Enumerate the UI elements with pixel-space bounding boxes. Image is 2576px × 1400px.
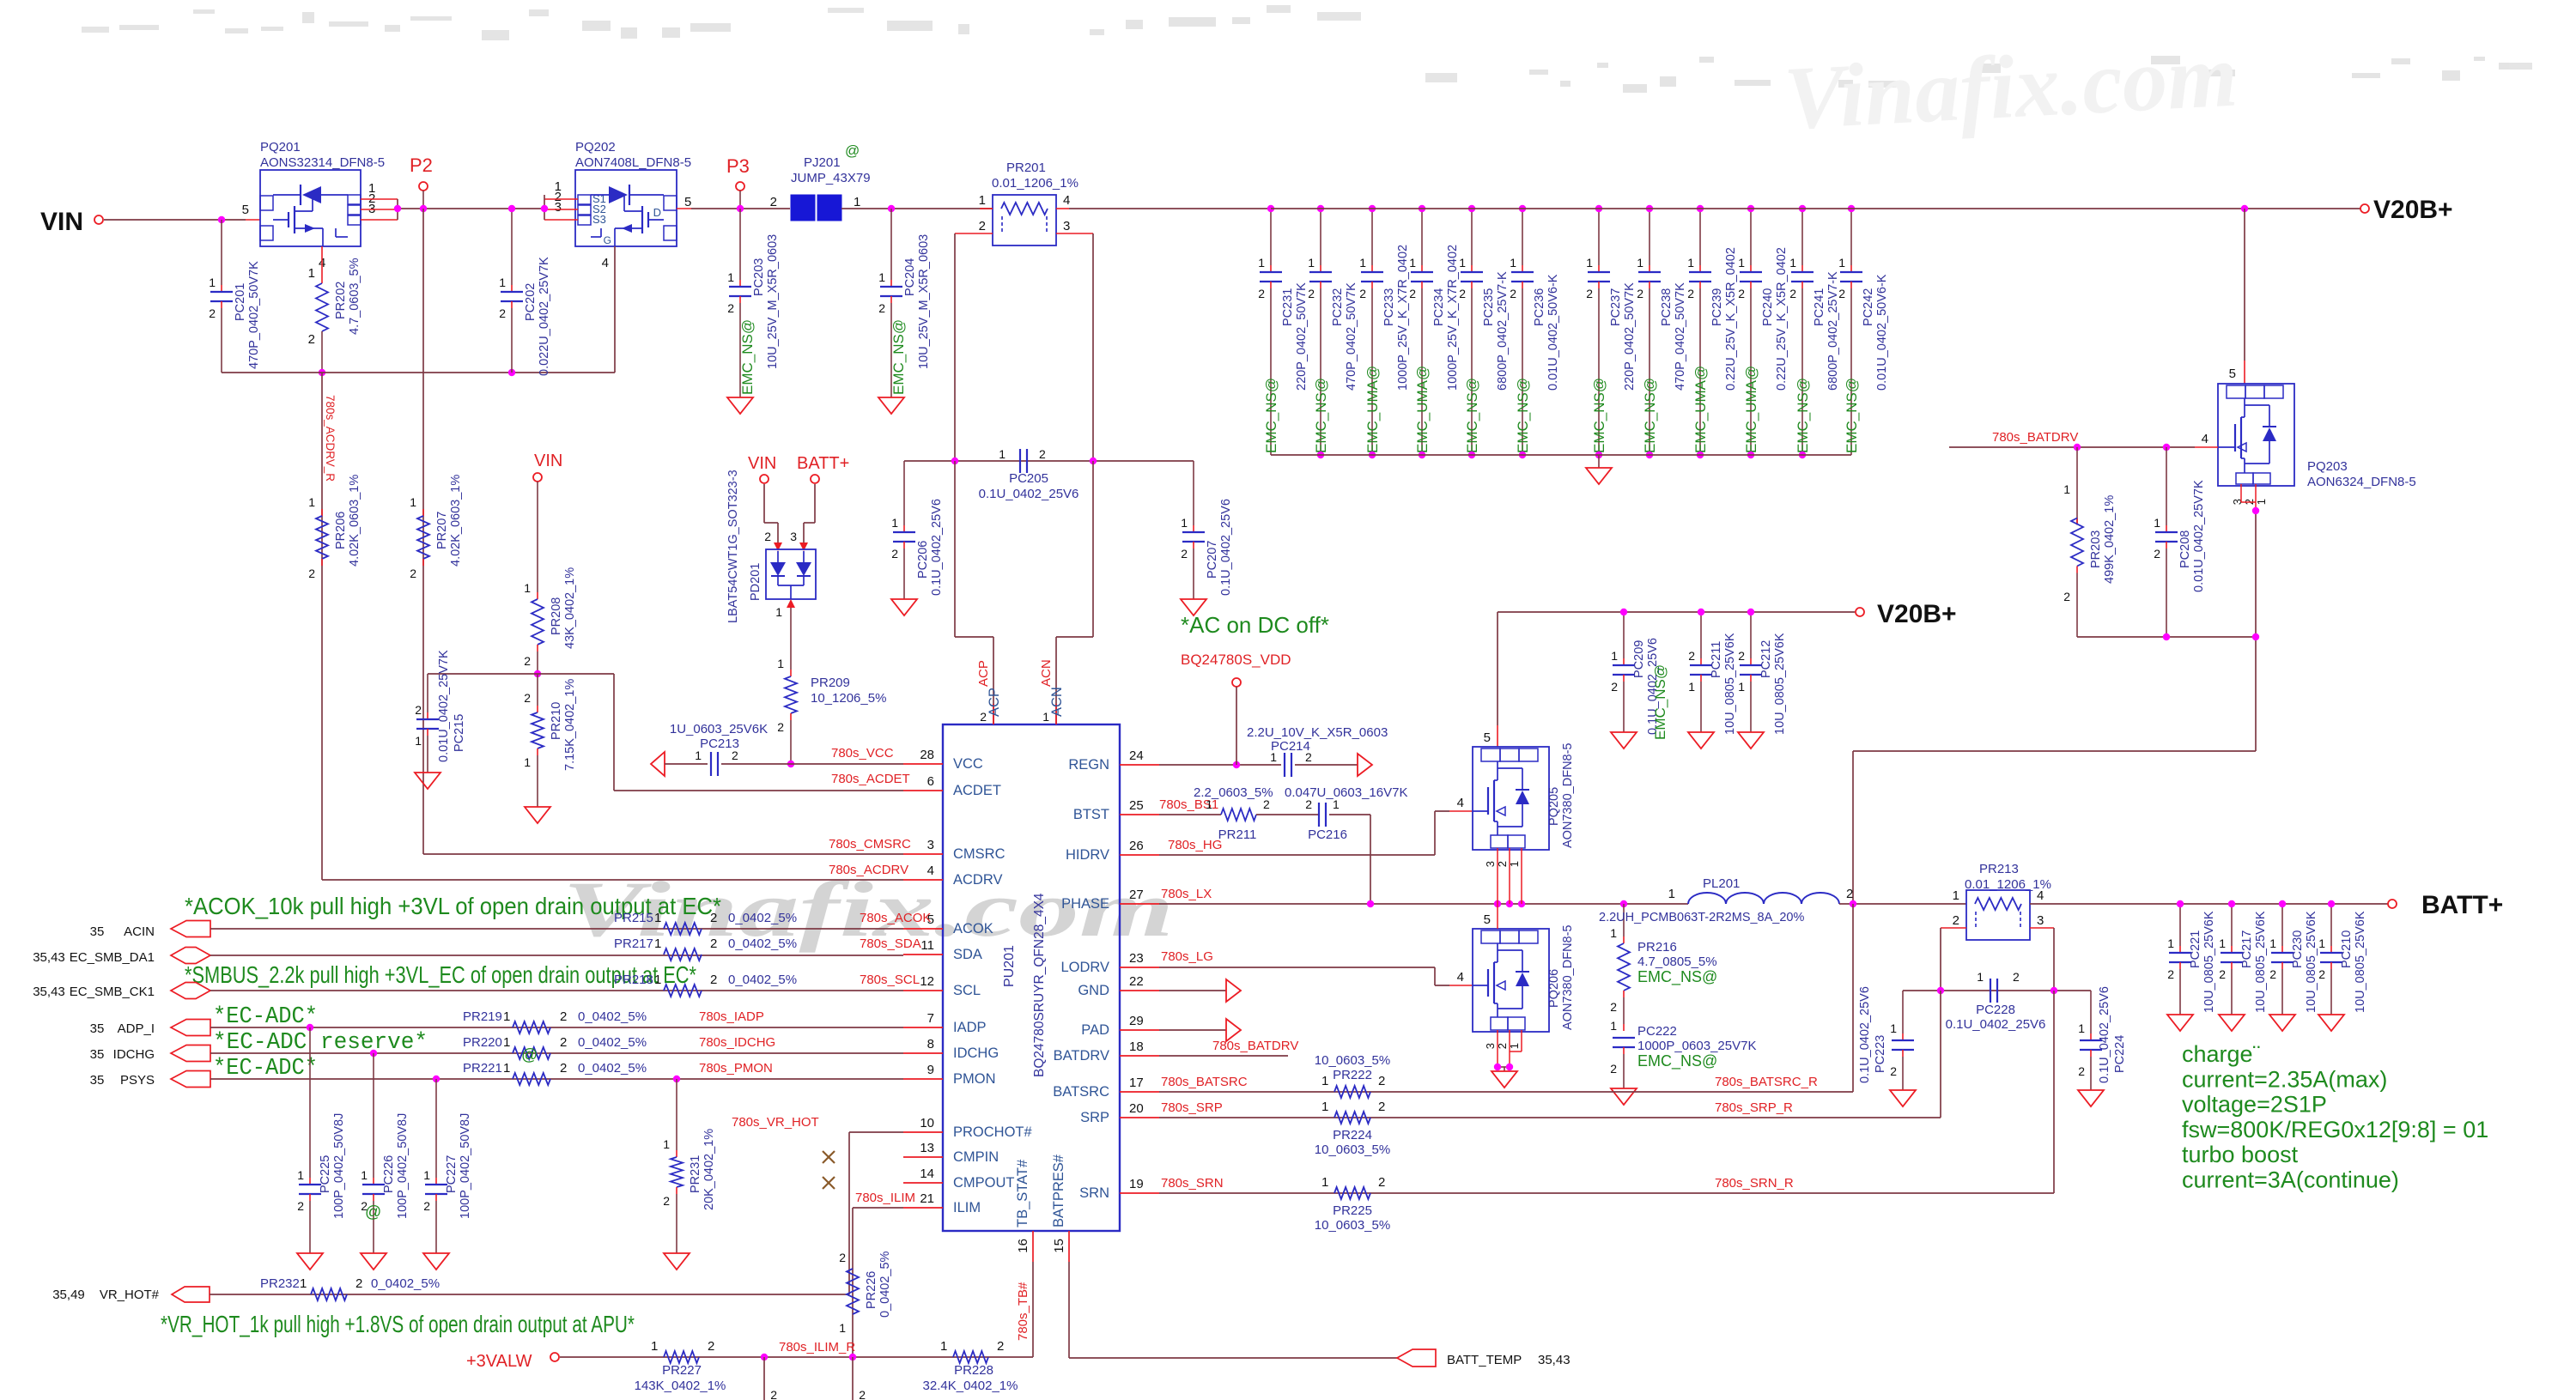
pin 12 SCL xyxy=(903,974,981,998)
flag PAD xyxy=(1159,1019,1241,1041)
svg-text:6800P_0402_25V7-K: 6800P_0402_25V7-K xyxy=(1496,271,1510,391)
wire PR213 pin2 xyxy=(1941,928,1966,991)
wire IADP xyxy=(210,1027,903,1028)
resistor PR227 xyxy=(635,1339,726,1393)
wire ACN drop xyxy=(1039,461,1093,724)
svg-text:4.7_0603_5%: 4.7_0603_5% xyxy=(348,258,361,335)
svg-text:2: 2 xyxy=(560,1009,567,1024)
svg-text:PR206: PR206 xyxy=(334,512,348,549)
capacitor PC202 xyxy=(499,209,551,376)
svg-text:2: 2 xyxy=(1305,750,1312,764)
capacitor PC228 xyxy=(1946,970,2046,1032)
svg-text:PC225: PC225 xyxy=(319,1155,332,1193)
resistor PR210 xyxy=(524,674,577,823)
svg-text:780s_SCL: 780s_SCL xyxy=(860,973,920,987)
svg-text:BATT+: BATT+ xyxy=(797,454,849,473)
svg-text:2: 2 xyxy=(1586,287,1593,300)
svg-text:PC217: PC217 xyxy=(2240,930,2254,968)
svg-text:IDCHG: IDCHG xyxy=(953,1045,999,1061)
wire CMSRC horiz xyxy=(423,853,903,855)
junction xyxy=(2163,633,2170,640)
junction xyxy=(319,369,325,376)
svg-text:EMC_NS@: EMC_NS@ xyxy=(1795,378,1811,453)
svg-text:3: 3 xyxy=(1484,861,1497,867)
resistor PR231 xyxy=(663,1079,716,1270)
svg-text:AON6324_DFN8-5: AON6324_DFN8-5 xyxy=(2307,475,2416,489)
svg-text:EMC_NS@: EMC_NS@ xyxy=(1313,378,1329,453)
svg-text:10_1206_5%: 10_1206_5% xyxy=(811,691,886,706)
svg-text:780s_BATSRC_R: 780s_BATSRC_R xyxy=(1715,1075,1818,1089)
svg-text:2: 2 xyxy=(1890,1064,1897,1078)
junction xyxy=(1799,205,1806,212)
wire PC228 net xyxy=(1903,990,2091,991)
junction xyxy=(1267,205,1274,212)
svg-text:1000P_0603_25V7K: 1000P_0603_25V7K xyxy=(1637,1039,1756,1053)
svg-text:CMSRC: CMSRC xyxy=(953,846,1005,862)
terminal BATT+ xyxy=(2388,891,2503,919)
capacitor PC203 xyxy=(727,209,780,414)
svg-text:PC239: PC239 xyxy=(1710,288,1724,326)
svg-text:2: 2 xyxy=(1838,287,1845,300)
terminal V20B+ mid xyxy=(1856,600,1957,628)
junction xyxy=(1799,452,1806,458)
svg-text:PQ202: PQ202 xyxy=(575,140,616,155)
svg-text:2: 2 xyxy=(297,1199,304,1213)
wire SCL xyxy=(210,990,903,991)
wire IDCHG xyxy=(210,1052,903,1054)
svg-text:PC238: PC238 xyxy=(1660,288,1674,326)
svg-text:1: 1 xyxy=(2318,936,2325,950)
capacitor PC204 xyxy=(878,209,931,414)
svg-text:BTST: BTST xyxy=(1073,807,1109,822)
capacitor PC237 xyxy=(1586,209,1637,455)
svg-text:470P_0402_50V7K: 470P_0402_50V7K xyxy=(1674,282,1687,391)
pin 21 ILIM xyxy=(903,1191,981,1215)
svg-text:4: 4 xyxy=(602,256,609,270)
wire PQ203 source rail xyxy=(1853,637,2256,902)
wire PR213 pin3 xyxy=(2030,928,2054,991)
wire BATT+ bus xyxy=(1839,903,1966,905)
junction xyxy=(1494,1064,1501,1070)
svg-text:10U_0805_25V6K: 10U_0805_25V6K xyxy=(2305,911,2318,1013)
svg-text:1: 1 xyxy=(2167,936,2174,950)
svg-text:1: 1 xyxy=(209,276,216,289)
terminal VIN 3 xyxy=(748,454,776,483)
terminal VIN 2 xyxy=(533,452,562,482)
svg-text:1: 1 xyxy=(854,195,860,209)
wire ACDRV_R rail xyxy=(222,372,615,373)
wire LX bus xyxy=(1159,903,1688,905)
svg-text:PR203: PR203 xyxy=(2089,530,2103,568)
svg-text:GND: GND xyxy=(1078,983,1109,998)
svg-text:charge¨: charge¨ xyxy=(2182,1041,2261,1067)
svg-text:1: 1 xyxy=(503,1035,510,1050)
svg-text:2: 2 xyxy=(1459,287,1466,300)
svg-text:1: 1 xyxy=(979,193,986,208)
svg-text:@: @ xyxy=(845,142,860,159)
svg-text:HIDRV: HIDRV xyxy=(1066,847,1109,863)
net 780s_BATDRV stub xyxy=(1159,1039,1298,1056)
svg-text:*AC on DC off*: *AC on DC off* xyxy=(1181,612,1329,638)
svg-text:turbo boost: turbo boost xyxy=(2182,1142,2299,1167)
wire ACP drop xyxy=(955,461,993,724)
junction xyxy=(2328,900,2335,907)
svg-text:PR222: PR222 xyxy=(1333,1068,1372,1082)
svg-text:ACDET: ACDET xyxy=(953,783,1001,798)
svg-text:PC231: PC231 xyxy=(1281,288,1295,326)
svg-text:4: 4 xyxy=(1063,193,1070,208)
svg-text:PC228: PC228 xyxy=(1976,1003,2015,1017)
svg-text:3: 3 xyxy=(927,838,934,852)
svg-text:VIN: VIN xyxy=(748,454,776,473)
svg-text:1: 1 xyxy=(300,1276,307,1291)
svg-text:780s_ACDET: 780s_ACDET xyxy=(831,772,910,786)
junction xyxy=(508,369,515,376)
svg-text:PC206: PC206 xyxy=(916,541,930,579)
svg-text:fsw=800K/REG0x12[9:8] = 01: fsw=800K/REG0x12[9:8] = 01 xyxy=(2182,1117,2488,1142)
svg-text:20K_0402_1%: 20K_0402_1% xyxy=(702,1129,716,1210)
svg-text:PC212: PC212 xyxy=(1759,640,1773,678)
svg-text:PR231: PR231 xyxy=(689,1155,702,1193)
svg-text:current=3A(continue): current=3A(continue) xyxy=(2182,1167,2399,1193)
junction xyxy=(1468,205,1475,212)
junction xyxy=(2163,444,2170,451)
svg-text:0_0402_5%: 0_0402_5% xyxy=(578,1035,647,1050)
junction xyxy=(1595,452,1602,458)
svg-text:780s_ILIM: 780s_ILIM xyxy=(855,1191,915,1205)
svg-text:2: 2 xyxy=(732,748,738,762)
svg-text:2: 2 xyxy=(1637,287,1643,300)
svg-text:PC211: PC211 xyxy=(1710,641,1723,678)
svg-text:PQ201: PQ201 xyxy=(260,140,301,155)
junction xyxy=(433,1076,440,1082)
junction xyxy=(1697,452,1704,458)
svg-text:PR225: PR225 xyxy=(1333,1203,1372,1218)
svg-text:35,49: 35,49 xyxy=(52,1288,85,1302)
svg-text:PR202: PR202 xyxy=(334,282,348,319)
svg-text:SRN: SRN xyxy=(1079,1185,1109,1201)
transistor PQ202 xyxy=(555,140,692,270)
svg-text:780s_SRP_R: 780s_SRP_R xyxy=(1715,1100,1793,1115)
svg-text:VCC: VCC xyxy=(953,756,983,772)
junction xyxy=(1697,205,1704,212)
svg-text:EC_SMB_DA1: EC_SMB_DA1 xyxy=(70,950,155,965)
transistor PQ206 xyxy=(1457,912,1575,1049)
svg-text:1: 1 xyxy=(654,973,661,987)
pin 3 CMSRC xyxy=(903,838,1005,862)
svg-text:12: 12 xyxy=(920,974,934,989)
svg-text:2: 2 xyxy=(1409,287,1416,300)
svg-text:EMC_NS@: EMC_NS@ xyxy=(739,319,756,395)
svg-text:780s_TB#: 780s_TB# xyxy=(1016,1282,1030,1341)
svg-text:PC233: PC233 xyxy=(1382,288,1396,326)
svg-text:2: 2 xyxy=(308,332,315,347)
port BATT_TEMP xyxy=(1397,1349,1571,1367)
svg-text:0_0402_5%: 0_0402_5% xyxy=(578,1009,647,1024)
resistor PR224 xyxy=(1315,1100,1390,1157)
junction xyxy=(2050,987,2057,994)
svg-text:PC215: PC215 xyxy=(453,714,466,752)
capacitor PC214 xyxy=(1247,725,1388,777)
svg-text:2: 2 xyxy=(560,1035,567,1050)
svg-text:*EC-ADC reserve*: *EC-ADC reserve* xyxy=(213,1030,428,1056)
svg-text:4: 4 xyxy=(2202,432,2208,446)
svg-text:2: 2 xyxy=(727,301,734,315)
capacitor PC232 xyxy=(1308,209,1358,455)
junction xyxy=(1233,761,1240,768)
svg-text:27: 27 xyxy=(1129,888,1144,902)
svg-text:1: 1 xyxy=(503,1009,510,1024)
svg-text:EMC_NS@: EMC_NS@ xyxy=(1515,378,1531,453)
svg-text:PC232: PC232 xyxy=(1331,288,1345,326)
wire BTST xyxy=(1159,814,1221,815)
resistor PR211 xyxy=(1194,785,1273,842)
wire VR_HOT xyxy=(210,1132,903,1294)
svg-text:EMC_UMA@: EMC_UMA@ xyxy=(1364,366,1381,453)
wire xyxy=(544,195,578,220)
svg-text:780s_ACDRV: 780s_ACDRV xyxy=(829,863,908,877)
svg-text:SDA: SDA xyxy=(953,947,982,962)
svg-text:780s_BATSRC: 780s_BATSRC xyxy=(1161,1075,1248,1089)
svg-text:EMC_UMA@: EMC_UMA@ xyxy=(1743,366,1759,453)
svg-text:100P_0402_50V8J: 100P_0402_50V8J xyxy=(396,1113,410,1219)
junction xyxy=(2228,900,2235,907)
svg-text:BATPRES#: BATPRES# xyxy=(1051,1154,1066,1227)
svg-text:VR_HOT#: VR_HOT# xyxy=(100,1288,160,1302)
junction xyxy=(307,1024,313,1031)
svg-text:PHASE: PHASE xyxy=(1061,896,1109,912)
svg-text:2: 2 xyxy=(2318,967,2325,981)
wire PQ206 drain xyxy=(1497,904,1498,929)
svg-text:780s_BATDRV: 780s_BATDRV xyxy=(1992,430,2078,445)
svg-text:1: 1 xyxy=(839,1321,846,1335)
junction xyxy=(2252,633,2259,640)
terminal BATT+ small xyxy=(797,454,849,483)
svg-text:2: 2 xyxy=(1378,1100,1385,1114)
svg-text:1: 1 xyxy=(1953,888,1959,903)
capacitor PC226 xyxy=(361,1053,410,1270)
svg-text:2: 2 xyxy=(770,1388,777,1400)
svg-text:1: 1 xyxy=(503,1061,510,1076)
junction xyxy=(1747,205,1754,212)
node P3 xyxy=(726,155,750,209)
svg-text:1: 1 xyxy=(1181,516,1188,530)
wire xyxy=(1256,814,1318,815)
svg-text:2: 2 xyxy=(560,1061,567,1076)
svg-text:7.15K_0402_1%: 7.15K_0402_1% xyxy=(563,679,577,771)
svg-text:0.01U_0402_50V6-K: 0.01U_0402_50V6-K xyxy=(1546,274,1560,391)
svg-text:1: 1 xyxy=(695,748,702,762)
svg-text:499K_0402_1%: 499K_0402_1% xyxy=(2103,495,2117,584)
svg-text:BQ24780S_VDD: BQ24780S_VDD xyxy=(1181,652,1291,668)
svg-text:2: 2 xyxy=(1687,287,1694,300)
svg-text:0.22U_25V_K_X5R_0402: 0.22U_25V_K_X5R_0402 xyxy=(1724,247,1738,391)
svg-text:2: 2 xyxy=(2013,970,2020,984)
annotation charge xyxy=(2182,1041,2488,1193)
svg-text:3: 3 xyxy=(1063,219,1070,233)
svg-text:20: 20 xyxy=(1129,1101,1144,1116)
svg-text:2: 2 xyxy=(859,1388,866,1400)
svg-text:2: 2 xyxy=(308,567,315,580)
svg-text:ACP: ACP xyxy=(987,688,1002,717)
junction xyxy=(1468,452,1475,458)
junction xyxy=(1090,458,1097,464)
svg-text:1: 1 xyxy=(361,1168,368,1182)
svg-text:2: 2 xyxy=(1378,1175,1385,1190)
svg-text:SCL: SCL xyxy=(953,983,981,998)
wire SDA xyxy=(210,955,903,956)
wire ACOK xyxy=(210,928,903,930)
svg-text:2: 2 xyxy=(710,973,717,987)
resistor PR228 xyxy=(923,1339,1018,1393)
svg-text:100P_0402_50V8J: 100P_0402_50V8J xyxy=(459,1113,472,1219)
svg-text:CMPOUT: CMPOUT xyxy=(953,1175,1015,1191)
svg-text:PR209: PR209 xyxy=(811,676,850,690)
svg-text:32.4K_0402_1%: 32.4K_0402_1% xyxy=(923,1379,1018,1393)
svg-text:2: 2 xyxy=(708,1339,714,1354)
svg-text:EC_SMB_CK1: EC_SMB_CK1 xyxy=(70,985,155,999)
svg-text:1: 1 xyxy=(1270,750,1277,764)
svg-text:220P_0402_50V7K: 220P_0402_50V7K xyxy=(1295,282,1309,391)
svg-text:2: 2 xyxy=(1258,287,1265,300)
svg-text:19: 19 xyxy=(1129,1177,1144,1191)
resistor PR207 xyxy=(410,475,463,580)
junction xyxy=(1848,205,1855,212)
capacitor PC242 xyxy=(1838,209,1889,455)
svg-text:1: 1 xyxy=(777,657,784,670)
svg-text:PC210: PC210 xyxy=(2340,930,2354,968)
svg-text:PR211: PR211 xyxy=(1218,827,1257,842)
svg-text:AON7380_DFN8-5: AON7380_DFN8-5 xyxy=(1561,925,1575,1031)
svg-text:2: 2 xyxy=(2078,1064,2085,1078)
svg-text:18: 18 xyxy=(1129,1039,1144,1054)
svg-text:0.22U_25V_K_X5R_0402: 0.22U_25V_K_X5R_0402 xyxy=(1775,247,1789,391)
transistor PQ201 xyxy=(242,140,385,270)
svg-text:G: G xyxy=(604,234,611,246)
svg-text:2: 2 xyxy=(1610,1000,1617,1014)
svg-text:PC236: PC236 xyxy=(1533,288,1546,326)
junction xyxy=(370,1050,377,1057)
svg-text:1: 1 xyxy=(2255,499,2268,505)
port VR_HOT# xyxy=(52,1287,210,1302)
svg-text:26: 26 xyxy=(1129,839,1144,853)
svg-text:5: 5 xyxy=(242,203,249,217)
svg-text:1: 1 xyxy=(1586,256,1593,270)
capacitor PC205 xyxy=(979,447,1079,501)
svg-text:1: 1 xyxy=(891,516,898,530)
svg-text:EMC_NS@: EMC_NS@ xyxy=(1637,1052,1717,1070)
pin 1 ACN xyxy=(1049,687,1065,724)
svg-text:1: 1 xyxy=(2154,516,2160,530)
wire stub down 1 xyxy=(763,1357,765,1400)
wire ACDET xyxy=(428,674,903,791)
svg-text:4: 4 xyxy=(1457,970,1464,985)
svg-text:220P_0402_50V7K: 220P_0402_50V7K xyxy=(1623,282,1637,391)
svg-text:PQ205: PQ205 xyxy=(1547,787,1561,826)
wire bus to V20B+ xyxy=(1851,208,2360,209)
junction xyxy=(1620,900,1627,907)
terminal +3VALW xyxy=(466,1352,559,1371)
junction xyxy=(2279,900,2286,907)
capacitor PC221 xyxy=(2167,904,2216,1031)
svg-text:PD201: PD201 xyxy=(749,563,762,601)
capacitor PC230 xyxy=(2269,904,2318,1031)
svg-text:2: 2 xyxy=(770,195,777,209)
resistor PR216 xyxy=(1610,904,1717,1024)
svg-text:1: 1 xyxy=(1838,256,1845,270)
svg-text:EMC_NS@: EMC_NS@ xyxy=(1637,968,1717,986)
svg-text:1: 1 xyxy=(727,270,734,284)
pin 15 BATPRES# xyxy=(1051,1154,1069,1262)
pin 19 SRN xyxy=(1079,1177,1159,1201)
svg-text:PROCHOT#: PROCHOT# xyxy=(953,1124,1033,1140)
svg-text:AONS32314_DFN8-5: AONS32314_DFN8-5 xyxy=(260,155,385,170)
svg-text:PC221: PC221 xyxy=(2189,930,2202,968)
junction xyxy=(541,205,548,212)
svg-text:0.01_1206_1%: 0.01_1206_1% xyxy=(992,176,1078,191)
wire xyxy=(361,199,544,220)
svg-text:1: 1 xyxy=(1637,256,1643,270)
svg-text:780s_VR_HOT: 780s_VR_HOT xyxy=(732,1115,819,1130)
capacitor PC216 xyxy=(1285,785,1407,842)
svg-text:LBAT54CWT1G_SOT323-3: LBAT54CWT1G_SOT323-3 xyxy=(726,470,740,623)
svg-text:1: 1 xyxy=(524,755,531,769)
svg-text:2: 2 xyxy=(1610,1062,1617,1076)
svg-text:PC201: PC201 xyxy=(234,283,247,321)
svg-text:10U_0805_25V6K: 10U_0805_25V6K xyxy=(1723,633,1737,735)
svg-text:1: 1 xyxy=(1321,1175,1328,1190)
svg-text:1: 1 xyxy=(297,1168,304,1182)
svg-text:0.01U_0402_25V7K: 0.01U_0402_25V7K xyxy=(2192,480,2206,592)
svg-text:2: 2 xyxy=(1510,287,1516,300)
wire bus across bank xyxy=(1271,208,1851,209)
wire PQ202 gate xyxy=(614,246,616,373)
wire VIN xyxy=(104,219,260,221)
pin 24 REGN xyxy=(1068,748,1159,773)
svg-text:ACP: ACP xyxy=(976,660,991,687)
svg-text:1: 1 xyxy=(651,1339,658,1354)
svg-text:BATT+: BATT+ xyxy=(2421,891,2503,919)
svg-text:1: 1 xyxy=(1409,256,1416,270)
svg-text:2: 2 xyxy=(2269,967,2276,981)
svg-text:10U_0805_25V6K: 10U_0805_25V6K xyxy=(1773,633,1787,735)
svg-text:ACN: ACN xyxy=(1049,687,1065,717)
svg-text:EMC_NS@: EMC_NS@ xyxy=(1652,664,1668,740)
svg-text:8: 8 xyxy=(927,1037,934,1052)
junction xyxy=(1937,987,1944,994)
pin 20 SRP xyxy=(1080,1101,1159,1125)
junction xyxy=(1620,609,1627,615)
svg-text:1: 1 xyxy=(410,495,416,509)
svg-text:PC209: PC209 xyxy=(1632,640,1646,678)
wire HG xyxy=(1159,811,1473,855)
wire ACN riser xyxy=(1056,233,1093,461)
svg-text:0.01U_0402_25V7K: 0.01U_0402_25V7K xyxy=(437,650,451,762)
svg-text:+3VALW: +3VALW xyxy=(466,1352,532,1371)
junction xyxy=(1518,900,1525,907)
svg-text:1: 1 xyxy=(1258,256,1265,270)
svg-text:2: 2 xyxy=(1846,887,1853,901)
svg-text:14: 14 xyxy=(920,1167,934,1181)
svg-text:2: 2 xyxy=(839,1251,846,1264)
svg-text:0.01U_0402_50V6-K: 0.01U_0402_50V6-K xyxy=(1875,274,1889,391)
svg-text:PR208: PR208 xyxy=(550,597,563,635)
jumper PJ201 xyxy=(770,142,871,221)
svg-text:EMC_NS@: EMC_NS@ xyxy=(890,319,907,395)
svg-text:2: 2 xyxy=(764,530,771,543)
svg-text:EMC_NS@: EMC_NS@ xyxy=(1642,378,1658,453)
svg-text:ACIN: ACIN xyxy=(124,924,155,939)
